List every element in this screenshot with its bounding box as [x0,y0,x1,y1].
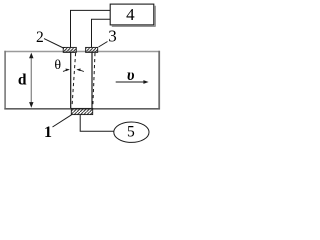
transducer 1 (hatched, bottom) [71,108,92,114]
pointer line for label 1 [53,115,72,127]
pipe right wall [158,51,160,110]
svg-text:θ: θ [54,58,61,73]
pointer line for label 2 [44,39,63,48]
wire B (transducer 3 to box 4) [92,19,111,47]
pointer line for label 3 [99,42,108,48]
transducer 3 (hatched) [86,47,98,52]
ellipse 5 [114,122,149,142]
pipe (channel) rectangle: top wall [4,51,160,53]
svg-text:2: 2 [36,29,44,46]
pipe bottom wall [4,108,160,110]
angle marker right arrow [76,69,84,72]
box 4 [110,4,154,25]
d dimension arrow (double headed vertical) [30,55,32,106]
dashed beam line under transducer 3 [93,53,95,107]
vertical reference line under transducer 2 [70,52,72,108]
wire A (transducer 2 to box 4) [71,10,111,47]
wire from transducer 1 to ellipse 5 [80,115,114,132]
flow velocity arrow [116,81,145,83]
vertical reference line under transducer 3 [91,52,93,108]
dashed beam line under transducer 2 [72,53,76,107]
svg-text:1: 1 [44,124,52,141]
pipe left wall [4,51,6,110]
box 4 shadow [112,6,155,26]
transducer 2 (hatched) [63,47,76,52]
svg-text:d: d [18,72,27,89]
svg-text:4: 4 [126,5,135,24]
svg-text:5: 5 [127,123,135,140]
angle marker left arrow [63,69,70,72]
svg-text:3: 3 [108,27,117,46]
